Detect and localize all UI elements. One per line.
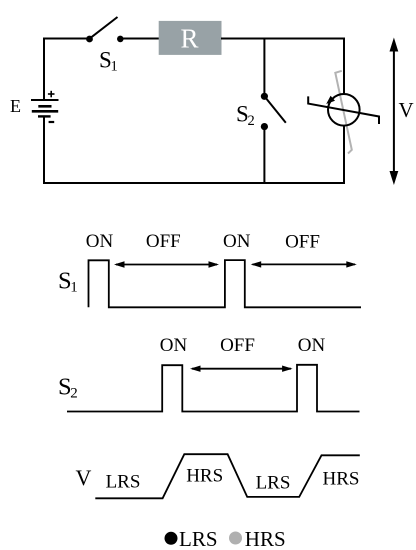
waveform S1 — [89, 260, 362, 307]
arrow OFF span 2 (S1) — [251, 261, 357, 267]
svg-text:E: E — [10, 96, 21, 116]
svg-text:ON: ON — [223, 231, 251, 252]
wire S2 branch upper — [263, 38, 265, 94]
wire S1 to R — [123, 38, 160, 40]
svg-text:ON: ON — [86, 231, 114, 252]
wire left lower — [43, 116, 45, 184]
battery minus sign — [49, 121, 55, 123]
wire top-left segment — [44, 38, 87, 40]
wire right branch upper — [343, 38, 345, 95]
battery E — [31, 100, 59, 116]
arrow OFF span 1 (S1) — [114, 261, 219, 267]
resistor R — [159, 21, 222, 55]
svg-text:OFF: OFF — [146, 231, 181, 252]
arrow OFF span (S2) — [190, 366, 293, 372]
svg-text:1: 1 — [70, 279, 78, 295]
svg-text:HRS: HRS — [323, 468, 360, 489]
legend HRS dot — [229, 532, 242, 545]
svg-text:ON: ON — [298, 335, 326, 356]
wire bottom — [43, 182, 345, 184]
memristor crossing line dark — [308, 96, 379, 124]
wire R to right branch — [221, 38, 345, 40]
waveform V — [95, 454, 360, 498]
svg-text:OFF: OFF — [220, 335, 255, 356]
svg-text:2: 2 — [248, 113, 255, 129]
waveform S2 — [67, 365, 360, 412]
voltage arrow V — [390, 38, 399, 186]
memristor rotation arrowhead — [326, 96, 335, 104]
svg-text:ON: ON — [160, 335, 188, 356]
label S1 — [99, 48, 118, 75]
svg-text:R: R — [180, 24, 198, 54]
svg-text:HRS: HRS — [186, 466, 223, 487]
svg-text:LRS: LRS — [256, 472, 291, 493]
label S2 (timing) — [58, 373, 78, 401]
svg-text:2: 2 — [70, 385, 78, 401]
battery plus sign — [48, 91, 55, 98]
svg-text:LRS: LRS — [106, 472, 141, 493]
label S1 (timing) — [58, 267, 78, 295]
svg-text:HRS: HRS — [245, 527, 286, 550]
memristor M1 circle — [328, 94, 360, 126]
switch S2 — [261, 93, 286, 130]
svg-text:V: V — [399, 98, 414, 122]
memristor crossing line gray — [335, 71, 352, 154]
label S2 — [236, 102, 255, 130]
legend LRS dot — [165, 532, 178, 545]
svg-text:OFF: OFF — [285, 232, 320, 253]
wire right branch lower — [343, 126, 345, 184]
svg-text:LRS: LRS — [179, 527, 218, 550]
switch S1 — [86, 17, 124, 42]
wire S2 branch lower — [263, 130, 265, 184]
svg-text:1: 1 — [111, 59, 118, 75]
svg-text:V: V — [76, 465, 92, 490]
wire left upper — [43, 38, 45, 101]
